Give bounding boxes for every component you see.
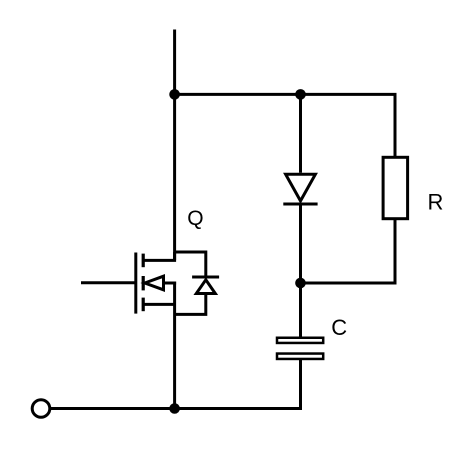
wire: top rail from node to resistor branch with corner down bbox=[175, 94, 395, 156]
transistor Q bulk arrow bbox=[145, 276, 164, 290]
wire: body diode bottom connection bbox=[175, 294, 206, 315]
wire: drain vertical from top node to MOSFET bbox=[173, 94, 176, 260]
diode: body diode of Q bbox=[175, 252, 220, 314]
transistor Q channel bar middle bbox=[142, 276, 145, 290]
svg-text:R: R bbox=[428, 189, 444, 214]
transistor Q channel bar bottom bbox=[142, 298, 145, 312]
node: junction top-middle bbox=[295, 89, 306, 100]
node: junction bottom bbox=[169, 403, 180, 414]
node: junction diode/resistor/capacitor bbox=[295, 278, 306, 289]
transistor Q (n-MOSFET) bbox=[81, 252, 176, 314]
wire: source lead bbox=[143, 303, 174, 306]
svg-text:Q: Q bbox=[187, 207, 203, 230]
transistor Q channel bar top bbox=[142, 254, 145, 268]
transistor Q gate bar bbox=[134, 253, 137, 314]
wire: body diode top connection bbox=[175, 252, 206, 278]
node: junction top-left bbox=[169, 89, 180, 100]
wire: diode anode lead from top rail bbox=[299, 94, 302, 172]
body diode cathode bar bbox=[192, 276, 219, 279]
wire: capacitor bottom lead and bottom rail to terminal bbox=[50, 360, 301, 409]
capacitor C bbox=[277, 338, 323, 359]
wire: MOSFET source vertical down to bottom rail bbox=[173, 282, 176, 409]
wire: gate lead bbox=[81, 281, 136, 284]
wire: top supply lead bbox=[173, 30, 176, 96]
wire: diode cathode lead down to node bbox=[299, 204, 302, 283]
diode D1 (freewheel, middle branch) bbox=[283, 174, 317, 204]
wire: node down to capacitor top plate bbox=[299, 283, 302, 337]
svg-text:C: C bbox=[331, 315, 347, 340]
resistor R bbox=[383, 157, 408, 218]
terminal: input port circle bbox=[32, 400, 50, 418]
wire: resistor bottom lead to diode node bbox=[301, 220, 396, 283]
wire: bulk connection bbox=[164, 282, 177, 285]
body diode triangle bbox=[196, 280, 215, 294]
wire: drain lead bbox=[143, 252, 174, 260]
